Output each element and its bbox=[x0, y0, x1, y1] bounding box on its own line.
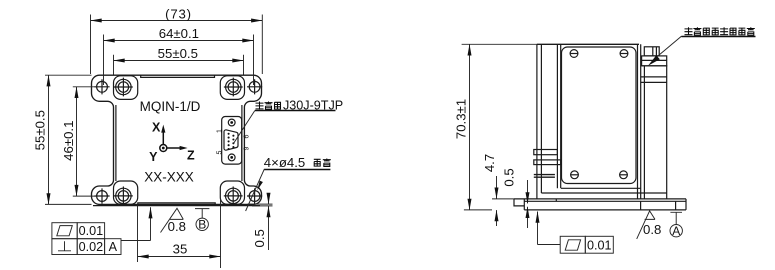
svg-text:B: B bbox=[198, 218, 206, 232]
roughness 0.8 right view bbox=[637, 211, 662, 239]
screw top-left bbox=[114, 78, 133, 97]
left wall tabs bbox=[534, 150, 561, 178]
panel screw bottom-right bbox=[620, 171, 628, 179]
axes symbol bbox=[149, 121, 195, 165]
svg-text:35: 35 bbox=[173, 241, 188, 256]
svg-text:4×ø4.5: 4×ø4.5 bbox=[264, 155, 305, 170]
side panel bbox=[562, 47, 637, 184]
right wall bbox=[638, 44, 641, 199]
svg-text:XX-XXX: XX-XXX bbox=[144, 169, 194, 184]
feature control frame flatness 0.01 bbox=[52, 223, 105, 239]
boss bottom-right bbox=[220, 181, 244, 204]
svg-text:MQIN-1/D: MQIN-1/D bbox=[140, 99, 201, 114]
plate and box silhouette bbox=[92, 75, 262, 204]
boss bottom-left bbox=[114, 181, 138, 204]
connector J30J-9TJP body bbox=[222, 117, 242, 165]
dimension (73) bbox=[91, 6, 263, 74]
svg-text:70.3±1: 70.3±1 bbox=[454, 99, 469, 139]
box inner wall left bbox=[115, 105, 117, 181]
svg-text:5: 5 bbox=[217, 150, 224, 154]
dimension 46±0.1 left bbox=[61, 87, 97, 196]
label XX-XXX bbox=[144, 169, 194, 184]
box bottom lines bbox=[541, 188, 666, 193]
screw bottom-right bbox=[224, 187, 243, 206]
datum B bbox=[195, 209, 209, 232]
svg-text:Z: Z bbox=[187, 149, 195, 163]
panel screw bottom-left bbox=[571, 171, 579, 179]
label 4xØ4.5 through bbox=[246, 155, 331, 211]
dimension 55±0.5 top bbox=[114, 46, 244, 74]
left wall bbox=[537, 44, 542, 199]
ear hole bottom-left bbox=[94, 188, 109, 203]
svg-text:0.01: 0.01 bbox=[587, 238, 612, 252]
svg-text:6: 6 bbox=[244, 134, 251, 138]
screw bottom-left bbox=[114, 187, 133, 206]
svg-text:1: 1 bbox=[217, 129, 224, 133]
svg-text:4.7: 4.7 bbox=[482, 154, 497, 172]
dimension 0.5 right view bbox=[501, 168, 527, 228]
panel screw top-left bbox=[570, 50, 578, 58]
svg-text:0.02: 0.02 bbox=[79, 240, 104, 254]
label connector J30J-9TJP bbox=[234, 99, 344, 144]
boss top-left bbox=[114, 76, 138, 100]
connector column bbox=[641, 66, 667, 199]
svg-text:0.5: 0.5 bbox=[252, 229, 267, 247]
pin numbers bbox=[217, 129, 251, 155]
roughness 0.8 left view bbox=[161, 208, 186, 234]
front wall pair bbox=[557, 44, 560, 188]
leader to base bottom bbox=[538, 212, 561, 245]
screw top-right bbox=[224, 78, 243, 97]
svg-text:0.8: 0.8 bbox=[168, 219, 186, 234]
datum A bbox=[670, 212, 682, 238]
dimension 0.5 lower right bbox=[248, 194, 273, 251]
dimension 55±0.5 left bbox=[33, 75, 92, 204]
dimension 64±0.1 bbox=[104, 26, 254, 85]
connector stack on top bbox=[642, 47, 667, 66]
top edge bbox=[537, 43, 639, 45]
ear hole top-right bbox=[247, 79, 262, 94]
ear hole bottom-right bbox=[247, 188, 262, 203]
svg-text:0.8: 0.8 bbox=[643, 222, 661, 237]
svg-text:55±0.5: 55±0.5 bbox=[158, 46, 198, 61]
bottom lip bbox=[93, 203, 260, 206]
svg-text:Y: Y bbox=[149, 150, 158, 164]
svg-text:(73): (73) bbox=[165, 6, 192, 21]
svg-text:A: A bbox=[672, 224, 680, 238]
dimension 4.7 bbox=[482, 154, 514, 226]
svg-text:0.5: 0.5 bbox=[501, 168, 516, 186]
leader from frame to bottom face bbox=[121, 207, 151, 240]
svg-text:A: A bbox=[109, 240, 118, 254]
svg-text:9: 9 bbox=[244, 146, 251, 150]
connector pins bbox=[228, 133, 235, 150]
svg-text:64±0.1: 64±0.1 bbox=[159, 26, 199, 41]
box inner wall right bbox=[241, 105, 243, 181]
svg-text:X: X bbox=[152, 121, 161, 135]
boss top-right bbox=[220, 76, 244, 100]
svg-text:0.01: 0.01 bbox=[79, 224, 104, 238]
label MQIN-1/D bbox=[140, 99, 201, 114]
label connector on this plane bbox=[648, 27, 756, 66]
feature control frame perpendicularity 0.02 A bbox=[52, 239, 121, 255]
panel screw top-right bbox=[620, 50, 628, 58]
flatness frame right view bbox=[560, 236, 613, 253]
ear hole top-left bbox=[94, 79, 109, 94]
svg-text:46±0.1: 46±0.1 bbox=[61, 121, 76, 161]
dimension 70.3±1 bbox=[454, 44, 537, 210]
top lip bbox=[141, 76, 215, 78]
dimension 35 bottom bbox=[138, 199, 221, 269]
svg-text:55±0.5: 55±0.5 bbox=[33, 110, 48, 150]
base plate bbox=[514, 199, 686, 210]
